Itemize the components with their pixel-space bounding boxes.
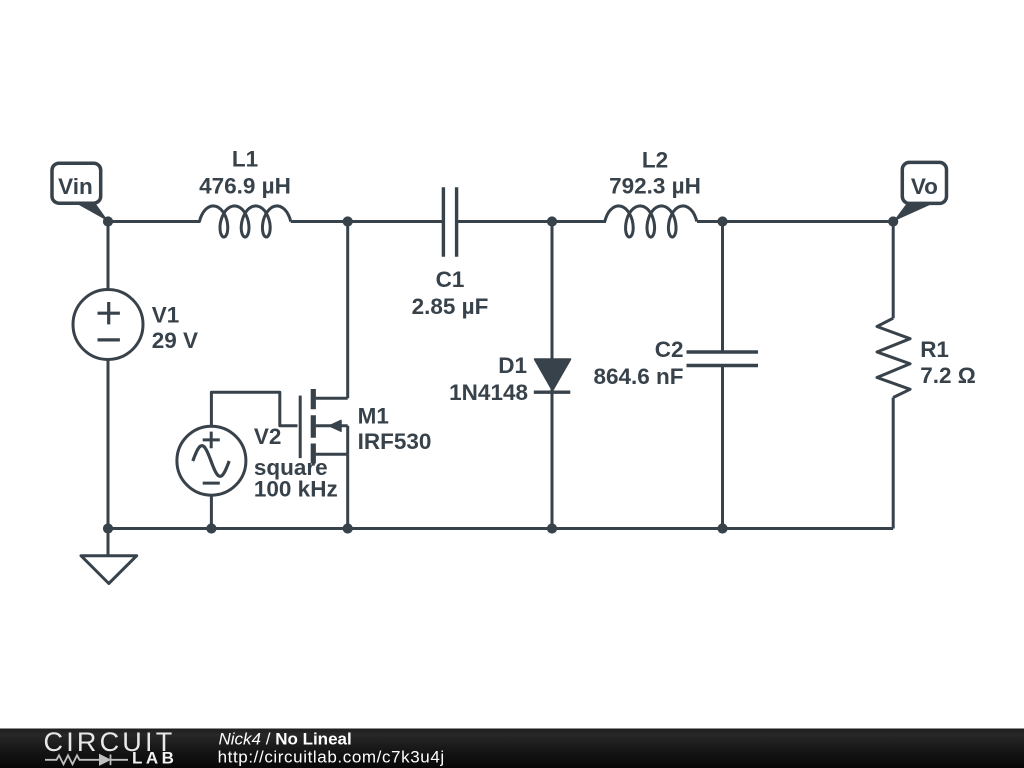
diode D1 — [534, 359, 571, 392]
svg-text:Nick4 / No Lineal: Nick4 / No Lineal — [219, 729, 352, 748]
junction M1 source — [343, 523, 353, 533]
wire M1 source down to ground rail — [346, 454, 349, 528]
svg-text:864.6 nF: 864.6 nF — [593, 364, 683, 389]
svg-text:LAB: LAB — [132, 749, 177, 768]
inductor L1 — [200, 206, 291, 237]
wire V1 to ground rail — [107, 360, 110, 529]
resistor R1 — [877, 318, 910, 397]
svg-text:792.3 µH: 792.3 µH — [609, 173, 701, 198]
svg-text:Vin: Vin — [58, 174, 93, 199]
wire V2 top to gate — [211, 392, 297, 426]
svg-text:1N4148: 1N4148 — [449, 380, 528, 405]
net label Vin — [52, 163, 109, 221]
wire Vo node down to R1 — [892, 222, 895, 319]
svg-text:2.85 µF: 2.85 µF — [412, 294, 489, 319]
label M1 value — [358, 403, 432, 454]
label L2 value — [609, 147, 701, 198]
label L1 value — [199, 147, 291, 199]
voltage source V1 — [73, 290, 143, 360]
junction node C1-D1 — [547, 216, 557, 226]
ground rail — [108, 527, 893, 530]
svg-text:29 V: 29 V — [152, 328, 198, 353]
net label Vo — [893, 162, 946, 221]
wire top rail left segment — [108, 220, 201, 223]
label D1 value — [449, 353, 528, 405]
svg-text:http://circuitlab.com/c7k3u4j: http://circuitlab.com/c7k3u4j — [218, 748, 445, 767]
svg-text:L2: L2 — [642, 147, 668, 172]
junction node drain — [343, 216, 353, 226]
wire C1 to L2 — [457, 220, 606, 223]
junction node C2 top — [717, 216, 727, 226]
capacitor C1 — [443, 187, 456, 257]
wire M1 drain up to node — [346, 222, 349, 399]
label C1 value — [412, 267, 489, 319]
svg-text:L1: L1 — [232, 147, 258, 172]
wire R1 bottom to rail — [892, 398, 895, 529]
wire L2 to Vo node — [697, 220, 893, 223]
wire C2 top — [721, 222, 724, 353]
label R1 value — [920, 337, 976, 388]
junction C2 bottom — [717, 523, 727, 533]
logo resistor-diode glyph — [45, 755, 128, 766]
junction V2 bottom — [206, 523, 216, 533]
junction D1 bottom — [547, 523, 557, 533]
inductor L2 — [605, 206, 697, 237]
svg-text:R1: R1 — [920, 337, 949, 362]
svg-text:M1: M1 — [358, 403, 389, 428]
wire node to D1 and down to rail — [551, 222, 554, 529]
svg-text:Vo: Vo — [911, 174, 938, 199]
svg-text:476.9 µH: 476.9 µH — [199, 173, 291, 198]
mosfet M1 — [300, 389, 348, 464]
svg-text:7.2 Ω: 7.2 Ω — [920, 363, 976, 388]
svg-text:V1: V1 — [152, 302, 180, 327]
svg-text:100 kHz: 100 kHz — [254, 476, 338, 501]
wire V2 bottom to ground rail — [210, 495, 213, 528]
voltage source V2 — [177, 426, 246, 495]
wire L1 to drain node — [291, 220, 444, 223]
svg-text:IRF530: IRF530 — [358, 429, 432, 454]
capacitor C2 — [687, 352, 759, 366]
svg-text:C1: C1 — [436, 267, 465, 292]
footer bar — [0, 729, 1024, 768]
svg-text:D1: D1 — [498, 353, 527, 378]
wire Vin node down to V1 — [107, 222, 110, 290]
label V1 value — [152, 302, 198, 353]
junction node Vo — [888, 216, 898, 226]
label V2 value — [254, 424, 338, 501]
ground — [81, 529, 137, 584]
wire C2 bottom to rail — [721, 366, 724, 529]
junction node Vin — [103, 216, 113, 226]
svg-text:C2: C2 — [655, 337, 684, 362]
svg-text:V2: V2 — [254, 424, 282, 449]
junction ground node — [103, 523, 113, 533]
label C2 value — [593, 337, 683, 389]
